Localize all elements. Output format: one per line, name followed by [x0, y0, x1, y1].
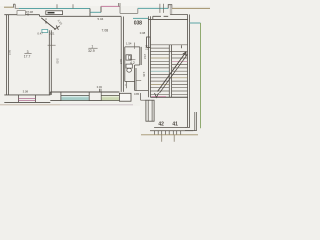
teal window frame	[61, 92, 89, 100]
staircase steps left flight	[150, 45, 187, 95]
svg-text:1.06: 1.06	[142, 72, 146, 78]
wire: top inner wall left	[4, 14, 39, 16]
bottom wall left room	[4, 95, 50, 103]
staircase steps right flight	[172, 55, 188, 95]
closet window box top middle	[46, 11, 63, 15]
arrowhead top of diagonal	[183, 52, 186, 56]
right bottom pier	[185, 112, 197, 131]
svg-text:42: 42	[158, 121, 164, 127]
teal window fill	[61, 96, 88, 101]
fixture stub below bathroom	[125, 82, 127, 89]
svg-text:1.54: 1.54	[126, 42, 132, 46]
svg-text:0.47: 0.47	[37, 32, 43, 36]
bottom hall inner line	[154, 126, 190, 128]
bottom outer olive line	[141, 134, 198, 136]
svg-text:0.21: 0.21	[49, 32, 55, 36]
wire: big room right wall pair	[121, 17, 123, 92]
bathroom box	[125, 47, 141, 91]
wire: teal wall line above OOB	[133, 17, 149, 19]
wire: recess step down x90	[89, 9, 91, 13]
svg-text:5.05: 5.05	[55, 59, 59, 65]
stair direction diagonal	[158, 52, 187, 92]
connector wall to vestibule	[141, 93, 146, 100]
door box flat 41	[173, 131, 180, 135]
teal door threshold box	[42, 29, 48, 32]
entrance step ticks below outer line	[162, 135, 175, 142]
stair bottom edge	[150, 96, 187, 98]
wire: inner wall segments right	[153, 15, 188, 20]
text: bathroom area 4.2	[130, 59, 136, 61]
vestibule double-wall box	[146, 100, 154, 121]
wire: right inner wall pair (stair right wall)	[188, 15, 190, 128]
door diagonal top-left	[41, 18, 55, 30]
pier stub tick + text 0.93	[99, 89, 101, 92]
wire: stair left wall pair	[148, 16, 150, 97]
wire: vent ticks on teal line	[57, 4, 73, 8]
bottom hall mid line	[150, 130, 193, 132]
arrow tail V at flight bottom	[155, 93, 159, 98]
tick at bathroom lower wall	[136, 79, 142, 81]
wire: tick up at x118.5	[119, 3, 120, 6]
upper landing tick	[181, 45, 183, 48]
svg-text:2.10: 2.10	[143, 54, 147, 60]
wire: teal step top right	[190, 22, 201, 24]
washbasin	[126, 55, 131, 60]
wire: top outer wall teal right segment	[138, 7, 168, 9]
svg-text:0.85: 0.85	[134, 92, 140, 96]
svg-text:0.93: 0.93	[97, 85, 103, 89]
svg-text:0.60: 0.60	[44, 19, 48, 25]
wire: top outer wall grey-teal segment	[15, 8, 19, 10]
svg-text:32.9: 32.9	[88, 49, 95, 53]
window left room pink	[18, 95, 35, 103]
faint outer bottom line	[0, 104, 60, 106]
green window frame	[101, 92, 119, 100]
wire: top outer wall olive right segment	[172, 7, 210, 9]
svg-text:41: 41	[172, 121, 178, 127]
wire: left outer wall pair	[7, 15, 9, 95]
wire: chimney tick pair top-left	[13, 4, 15, 8]
door swing arrow cross	[54, 25, 60, 29]
paper background	[0, 0, 210, 150]
stair stringer pair	[169, 45, 171, 97]
svg-text:0.08: 0.08	[140, 31, 146, 35]
svg-text:17.7: 17.7	[24, 54, 31, 58]
entry door leaf on stair wall	[147, 37, 151, 47]
porch box bottom middle	[119, 93, 131, 101]
svg-text:7.08: 7.08	[102, 28, 109, 32]
door box flat 42	[154, 131, 169, 135]
wire: notch up 168-172	[168, 5, 172, 9]
wire: vent ticks x159.9 x163.6	[160, 4, 164, 13]
wire: top inner wall over big room	[90, 15, 121, 17]
toilet	[126, 64, 132, 68]
svg-text:3.08: 3.08	[23, 89, 29, 93]
closet hatch mark	[48, 12, 55, 14]
dim tick across dividing wall	[48, 44, 56, 46]
wire: outer right wall green	[200, 23, 202, 128]
svg-text:038: 038	[134, 21, 142, 27]
green window fill	[102, 96, 120, 101]
tick over bathroom top wall	[134, 43, 136, 49]
svg-text:5.05: 5.05	[8, 49, 12, 55]
shaft line below bathroom	[135, 90, 149, 92]
svg-text:5.04: 5.04	[98, 17, 104, 21]
wire: step down to niche line	[120, 6, 138, 13]
wire: top outer wall pink segment	[101, 5, 120, 7]
step between wall sections	[49, 92, 51, 95]
wire: stair hall top wall	[149, 18, 188, 20]
wire: dividing wall pair between rooms	[49, 30, 51, 95]
wire: top outer wall olive left segment	[4, 6, 13, 8]
svg-text:2.36: 2.36	[145, 44, 149, 50]
bottom wall right section	[50, 92, 119, 101]
svg-text:2.90: 2.90	[119, 58, 123, 64]
window box on inner wall top-left	[17, 11, 25, 15]
